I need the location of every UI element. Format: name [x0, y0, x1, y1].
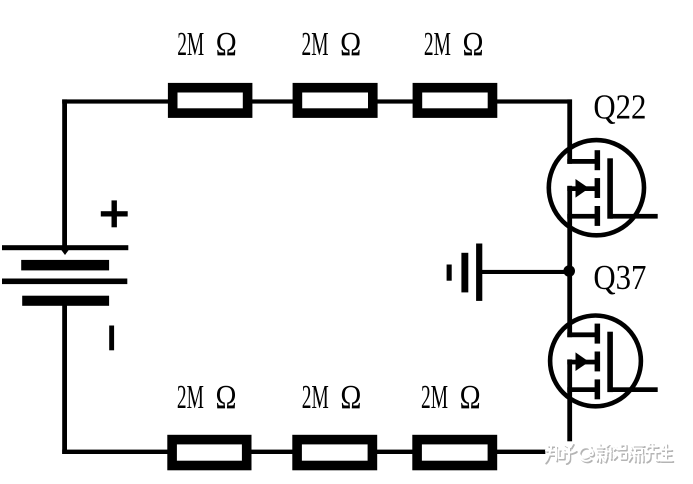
wire top rail segment R2 to R3	[376, 99, 415, 103]
wire bottom rail segment R6 to right corner	[496, 450, 573, 454]
svg-text:2M: 2M	[421, 379, 448, 416]
ground bar large	[476, 244, 482, 301]
svg-text:2M: 2M	[302, 379, 329, 416]
wm char at	[579, 446, 593, 461]
wire left rail lower segment	[62, 304, 67, 454]
battery B1 plate 1 long	[2, 245, 128, 250]
Q22 gate bar	[607, 158, 613, 218]
Q22 body arrow	[576, 179, 590, 198]
svg-text:Ω: Ω	[340, 26, 361, 63]
Q37 body arrow	[576, 352, 590, 371]
wire top rail segment R1 to R2	[251, 99, 295, 103]
svg-text:Ω: Ω	[340, 379, 361, 416]
node junction dot	[563, 265, 575, 277]
Q37 body contact bar	[595, 352, 601, 372]
svg-text:Ω: Ω	[216, 26, 237, 63]
Q22 gate lead	[610, 214, 658, 219]
label R4 value 2M ohm	[177, 379, 237, 416]
wire left rail upper segment	[62, 99, 67, 247]
wm char zhi	[545, 446, 564, 463]
svg-text:Q37: Q37	[593, 258, 646, 297]
svg-text:2M: 2M	[177, 26, 204, 63]
resistor R1	[173, 88, 248, 113]
resistor R5	[297, 440, 372, 466]
Q37 circle	[550, 316, 641, 407]
wire bottom rail segment R4 to R5	[250, 450, 294, 454]
watermark text 知乎@新能源先生 (drawn as shapes)	[545, 444, 672, 463]
battery B1 plate 4 short thick	[22, 296, 109, 306]
label R5 value 2M ohm	[302, 379, 362, 416]
wire top rail segment battery to R1	[62, 99, 170, 103]
battery plus label	[101, 200, 128, 227]
watermark shadow pass	[546, 445, 673, 464]
Q22 body contact bar	[595, 178, 601, 198]
wm char yuan	[629, 446, 644, 462]
battery minus label (rotated bar)	[109, 326, 114, 351]
Q22 circle	[549, 140, 644, 235]
wire top rail segment R3 to right corner	[496, 99, 572, 103]
wm char sheng	[661, 444, 673, 461]
label R3 value 2M ohm	[424, 26, 484, 63]
battery junction tick	[61, 250, 68, 255]
battery B1 plate 3 long	[2, 279, 127, 285]
Q22 drain contact bar	[595, 150, 601, 170]
wire right rail top to Q22 drain	[567, 99, 572, 163]
Q37 gate lead	[610, 387, 658, 392]
transistor Q37	[550, 316, 658, 407]
transistor Q22	[549, 140, 658, 235]
label R6 value 2M ohm	[421, 379, 481, 416]
watermark background patch	[545, 441, 678, 464]
resistor R4	[172, 440, 247, 466]
resistor R3	[417, 88, 492, 113]
svg-text:2M: 2M	[177, 379, 204, 416]
Q37 source stub	[567, 387, 597, 392]
svg-text:Ω: Ω	[216, 379, 237, 416]
svg-text:2M: 2M	[424, 26, 451, 63]
svg-text:Q22: Q22	[593, 88, 646, 127]
wm char xian	[646, 444, 661, 462]
resistor R6	[417, 440, 492, 466]
resistor R2	[297, 88, 372, 113]
ground symbol	[447, 244, 569, 301]
wire right rail Q37 source to bottom corner	[567, 359, 572, 454]
wm char hu	[563, 444, 576, 463]
battery B1 plate 2 short thick	[21, 260, 109, 271]
wire right rail Q22 source to Q37 drain	[567, 186, 572, 337]
wire bottom rail segment corner to R4	[62, 450, 169, 454]
Q22 body line	[567, 186, 595, 191]
Q37 body line	[567, 360, 595, 365]
ground bar small	[447, 265, 452, 281]
Q37 drain stub	[567, 332, 597, 337]
svg-text:Ω: Ω	[460, 379, 481, 416]
wire bottom rail segment R5 to R6	[376, 450, 415, 454]
Q22 drain stub	[567, 159, 597, 164]
Q37 drain contact bar	[595, 324, 601, 344]
Q37 gate bar	[607, 332, 613, 392]
label R1 value 2M ohm	[177, 26, 237, 63]
wm char neng	[614, 445, 627, 459]
wm char xin	[597, 444, 612, 462]
ground bar medium	[461, 253, 468, 293]
watermark white pass	[545, 444, 672, 463]
svg-text:Ω: Ω	[463, 26, 484, 63]
Q22 source stub	[567, 214, 597, 219]
svg-text:2M: 2M	[302, 26, 329, 63]
label R2 value 2M ohm	[302, 26, 362, 63]
Q37 source contact bar	[595, 379, 601, 399]
Q22 source contact bar	[595, 206, 601, 226]
ground wire to node	[482, 270, 569, 274]
